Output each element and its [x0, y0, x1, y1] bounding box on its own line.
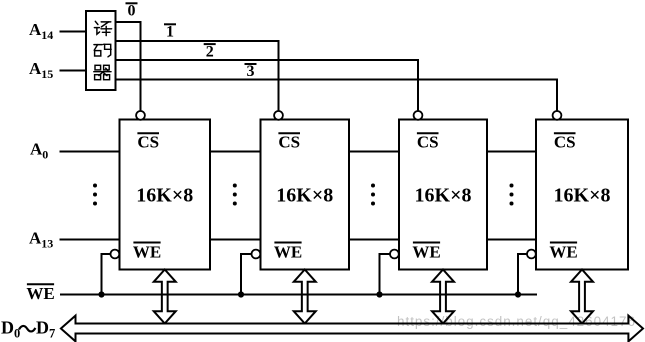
data bus double arrow chip 3 — [432, 270, 454, 324]
svg-text:WE: WE — [133, 242, 161, 261]
wire A13 bus segment chip 1 to chip 2 — [210, 239, 261, 241]
svg-text:16K×8: 16K×8 — [276, 185, 333, 207]
svg-text:CS: CS — [554, 133, 576, 152]
WE active-low bubble chip 4 — [527, 250, 536, 259]
svg-text:CS: CS — [417, 133, 439, 152]
svg-text:WE: WE — [26, 284, 54, 303]
memory chip U3 (16K×8 RAM) box — [261, 120, 350, 270]
svg-text:16K×8: 16K×8 — [554, 185, 611, 207]
svg-text:16K×8: 16K×8 — [415, 185, 472, 207]
wire decoder output 3 to chip 4 CS — [116, 80, 558, 112]
junction dot WE bus chip 3 — [376, 291, 382, 297]
wire decoder output 2 to chip 3 CS — [116, 60, 419, 111]
address ellipsis dots column 1 — [93, 184, 97, 206]
svg-text:CS: CS — [278, 133, 300, 152]
svg-text:CS: CS — [137, 133, 159, 152]
address ellipsis dots column 2 — [233, 184, 237, 206]
wire A13 to chip 1 — [60, 239, 120, 241]
decoder label char 器 — [94, 65, 111, 79]
junction dot WE bus chip 1 — [98, 291, 104, 297]
wire A0 to chip 1 — [60, 151, 120, 153]
wire A13 bus segment chip 3 to chip 4 — [487, 239, 536, 241]
decoder label char 码 — [94, 44, 111, 57]
CS active-low bubble chip 2 — [274, 111, 283, 120]
junction dot WE bus chip 2 — [238, 291, 244, 297]
wire decoder output 1 to chip 2 CS — [116, 41, 279, 111]
address ellipsis dots column 4 — [510, 184, 514, 206]
wire A14 to decoder — [60, 31, 87, 33]
CS active-low bubble chip 3 — [414, 111, 423, 120]
svg-text:0: 0 — [128, 3, 136, 20]
wire A13 bus segment chip 2 to chip 3 — [349, 239, 399, 241]
WE active-low bubble chip 2 — [252, 250, 261, 259]
memory chip U4 (16K×8 RAM) box — [399, 120, 487, 270]
data bus double arrow chip 1 — [154, 270, 176, 324]
WE active-low bubble chip 1 — [111, 250, 120, 259]
decoder label char 译 — [94, 21, 111, 35]
wire A0 bus segment chip 3 to chip 4 — [487, 151, 536, 153]
wire decoder output 0 to chip 1 CS — [116, 22, 141, 111]
address ellipsis dots column 3 — [371, 184, 375, 206]
CS active-low bubble chip 1 — [136, 111, 145, 120]
svg-text:WE: WE — [274, 242, 302, 261]
memory chip U5 (16K×8 RAM) box — [536, 120, 628, 270]
CS active-low bubble chip 4 — [553, 111, 562, 120]
junction dot WE bus chip 4 — [515, 291, 521, 297]
svg-text:3: 3 — [247, 63, 255, 80]
svg-text:WE: WE — [412, 242, 440, 261]
svg-text:2: 2 — [206, 43, 214, 60]
wire A0 bus segment chip 2 to chip 3 — [349, 151, 399, 153]
decoder U1 box (2-to-4 decoder) — [86, 11, 116, 90]
wire WE bus — [60, 294, 537, 296]
svg-text:16K×8: 16K×8 — [136, 185, 193, 207]
wire WE bus to chip 3 WE pin — [380, 254, 391, 295]
data bus D0~D7 double arrow — [61, 316, 643, 342]
wire WE bus to chip 4 WE pin — [518, 254, 527, 295]
data bus double arrow chip 4 — [571, 270, 593, 324]
svg-text:https://blog.csdn.net/qq_42604: https://blog.csdn.net/qq_42604176 — [397, 314, 635, 329]
svg-text:1: 1 — [166, 24, 174, 41]
memory chip U2 (16K×8 RAM) box — [120, 120, 211, 270]
wire A0 bus segment chip 1 to chip 2 — [210, 151, 261, 153]
wire WE bus to chip 1 WE pin — [102, 254, 111, 295]
data bus double arrow chip 2 — [294, 270, 316, 324]
wire A15 to decoder — [60, 70, 87, 72]
WE active-low bubble chip 3 — [390, 250, 399, 259]
svg-text:WE: WE — [549, 242, 577, 261]
wire WE bus to chip 2 WE pin — [241, 254, 252, 295]
